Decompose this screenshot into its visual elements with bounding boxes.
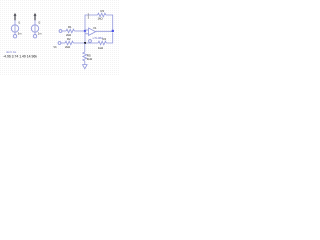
svg-text:R4: R4 xyxy=(103,37,107,41)
svg-text:R1: R1 xyxy=(68,25,72,29)
svg-text:2kΩ: 2kΩ xyxy=(65,45,71,49)
ground xyxy=(83,65,88,69)
resistor R2 xyxy=(65,41,73,45)
resistor R3 xyxy=(98,13,106,17)
junction noninverting node xyxy=(84,42,86,44)
resistor R5 xyxy=(83,52,87,61)
resistor R4 xyxy=(98,41,106,45)
current source IS2 xyxy=(31,13,38,38)
svg-text:1kΩ: 1kΩ xyxy=(87,57,93,61)
wire R3 to output node xyxy=(106,15,113,30)
svg-text:2kΩ: 2kΩ xyxy=(66,33,72,37)
wire op-amp output xyxy=(96,30,113,32)
wire feedback left vertical xyxy=(85,15,98,31)
junction inverting node xyxy=(84,30,86,32)
junction output node xyxy=(112,30,114,32)
svg-text:R2: R2 xyxy=(67,37,71,41)
svg-text:-4.96 3.74 1.49 14.96k: -4.96 3.74 1.49 14.96k xyxy=(3,54,37,58)
svg-text:2m: 2m xyxy=(38,32,42,36)
wire R4 to output node xyxy=(106,33,112,44)
svg-text:V1: V1 xyxy=(93,26,97,30)
wire R2 to R4 xyxy=(73,42,98,44)
node A terminal xyxy=(59,30,62,33)
svg-text:4mV 1k: 4mV 1k xyxy=(6,50,17,54)
resistor R1 xyxy=(66,29,74,33)
svg-text:5m: 5m xyxy=(18,32,22,36)
wire R5 to ground xyxy=(84,61,86,65)
wire node A to R1 xyxy=(62,30,66,32)
op-amp U1 xyxy=(85,28,96,43)
svg-text:1kΩ: 1kΩ xyxy=(98,16,104,20)
svg-text:Vb: Vb xyxy=(53,45,57,49)
wire R1 to inverting node xyxy=(74,30,85,32)
svg-text:1kΩ: 1kΩ xyxy=(98,46,104,50)
svg-text:R3: R3 xyxy=(101,9,105,13)
node B terminal xyxy=(58,42,61,45)
wire noninverting node to R5 xyxy=(84,43,86,52)
current source IS1 xyxy=(11,13,18,38)
wire node B to R2 xyxy=(61,42,65,44)
